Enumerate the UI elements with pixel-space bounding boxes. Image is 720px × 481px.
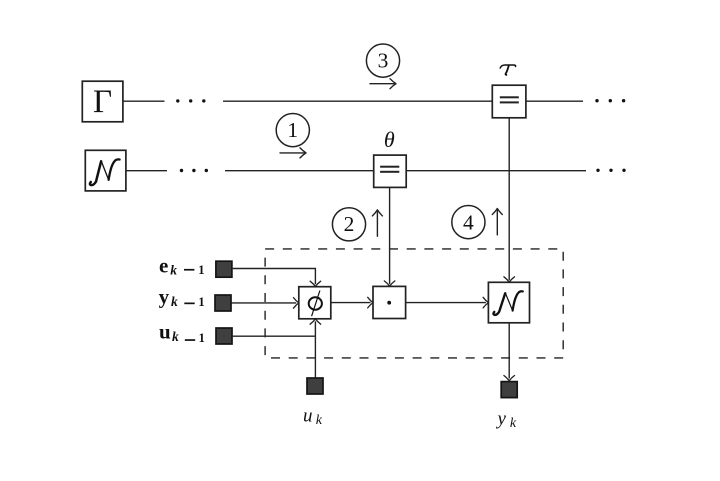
block phi <box>299 287 331 319</box>
svg-text:k: k <box>170 262 177 277</box>
wire u_k up to phi <box>314 321 316 377</box>
filled square y_k-1 <box>215 295 231 311</box>
wire bottom row mid <box>225 170 374 172</box>
svg-text:1: 1 <box>199 331 205 345</box>
svg-text:u: u <box>303 405 313 426</box>
wire theta down to dot <box>389 188 391 285</box>
= bars in tau box <box>380 96 519 173</box>
svg-text:y: y <box>159 285 170 309</box>
block N (top chain) <box>85 150 126 191</box>
cdots bottom right <box>596 169 599 172</box>
svg-text:k: k <box>316 413 323 428</box>
label y_k <box>496 408 517 431</box>
arrow into dot box left <box>368 297 373 308</box>
svg-text:k: k <box>172 329 179 344</box>
= bars in theta box <box>380 166 399 168</box>
label tau <box>500 65 515 75</box>
cdots top left <box>176 99 626 172</box>
product dot glyph <box>387 301 391 305</box>
svg-text:k: k <box>171 294 178 309</box>
circled step 1 <box>276 44 485 241</box>
small up arrow right of circle 4 <box>496 211 498 235</box>
arrow into dot box top <box>384 281 395 286</box>
wire top row left <box>123 100 165 102</box>
arrow into N box top <box>504 277 515 282</box>
block product dot <box>373 286 406 318</box>
svg-text:e: e <box>159 253 168 277</box>
svg-text:1: 1 <box>287 118 298 142</box>
svg-text:1: 1 <box>198 295 204 309</box>
svg-text:y: y <box>496 408 507 429</box>
cdots top right <box>595 99 598 102</box>
label y_k-1 <box>159 285 205 310</box>
block theta (=) <box>374 155 407 187</box>
wire tau down to N <box>508 118 510 280</box>
wire bottom row right <box>406 170 586 172</box>
svg-text:4: 4 <box>463 211 474 235</box>
wire y_k-1 to phi <box>232 302 297 304</box>
svg-text:3: 3 <box>378 49 389 73</box>
filled square u_k-1 <box>216 328 232 344</box>
mathcal N glyph (top chain box) <box>90 159 120 185</box>
block N (lower) <box>488 282 529 323</box>
wire top row mid <box>223 100 492 102</box>
label u_k-1 <box>159 320 205 345</box>
block Gamma <box>82 81 123 122</box>
wire top row right <box>526 100 583 102</box>
wire phi to dot <box>331 302 371 304</box>
small right arrow under circle 1 <box>280 79 502 237</box>
cdots bottom left <box>180 169 183 172</box>
wire N down to y_k <box>508 323 510 379</box>
wire e_k-1 to phi <box>233 269 316 285</box>
wire u_k-1 horizontal <box>233 335 316 337</box>
svg-text:Γ: Γ <box>93 84 112 120</box>
svg-text:2: 2 <box>344 212 355 236</box>
arrow into phi bottom <box>310 319 321 324</box>
filled square y_k <box>501 382 517 398</box>
small right arrow under circle 3 <box>370 83 395 85</box>
circled step 4 <box>452 206 485 239</box>
circled step 2 <box>332 208 365 241</box>
filled square e_k-1 <box>215 261 517 397</box>
svg-text:1: 1 <box>198 263 204 277</box>
mathcal N glyph (lower box) <box>493 291 522 315</box>
arrowheads <box>294 277 515 381</box>
svg-text:u: u <box>159 320 171 344</box>
wire bottom row left <box>126 170 167 172</box>
block tau (=) <box>492 85 526 118</box>
arrow into phi left <box>294 298 299 309</box>
circled step 3 <box>366 44 399 77</box>
arrow into phi top <box>310 281 321 286</box>
small up arrow right of circle 2 <box>376 212 378 236</box>
filled square u_k <box>307 378 323 394</box>
phi glyph <box>309 291 322 317</box>
svg-text:k: k <box>510 416 517 431</box>
arrow into N box left <box>483 297 488 308</box>
arrow into y_k square <box>504 376 515 381</box>
label e_k-1 <box>159 253 205 277</box>
svg-text:θ: θ <box>384 127 395 152</box>
wire dot to N <box>406 302 486 304</box>
label u_k <box>303 405 323 428</box>
dashed box <box>265 249 563 358</box>
